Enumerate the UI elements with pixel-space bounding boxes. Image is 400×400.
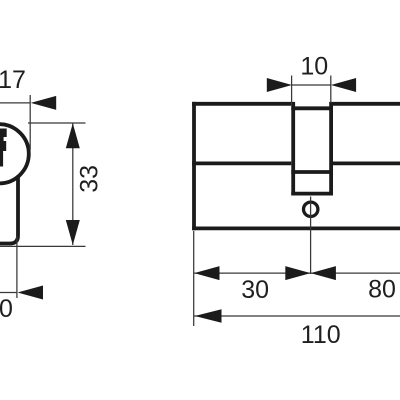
- svg-text:17: 17: [0, 66, 26, 94]
- svg-text:33: 33: [76, 165, 104, 193]
- svg-text:10: 10: [300, 52, 328, 80]
- svg-text:110: 110: [301, 321, 341, 349]
- svg-text:10: 10: [0, 295, 13, 323]
- svg-text:80: 80: [368, 276, 396, 304]
- svg-text:30: 30: [241, 276, 269, 304]
